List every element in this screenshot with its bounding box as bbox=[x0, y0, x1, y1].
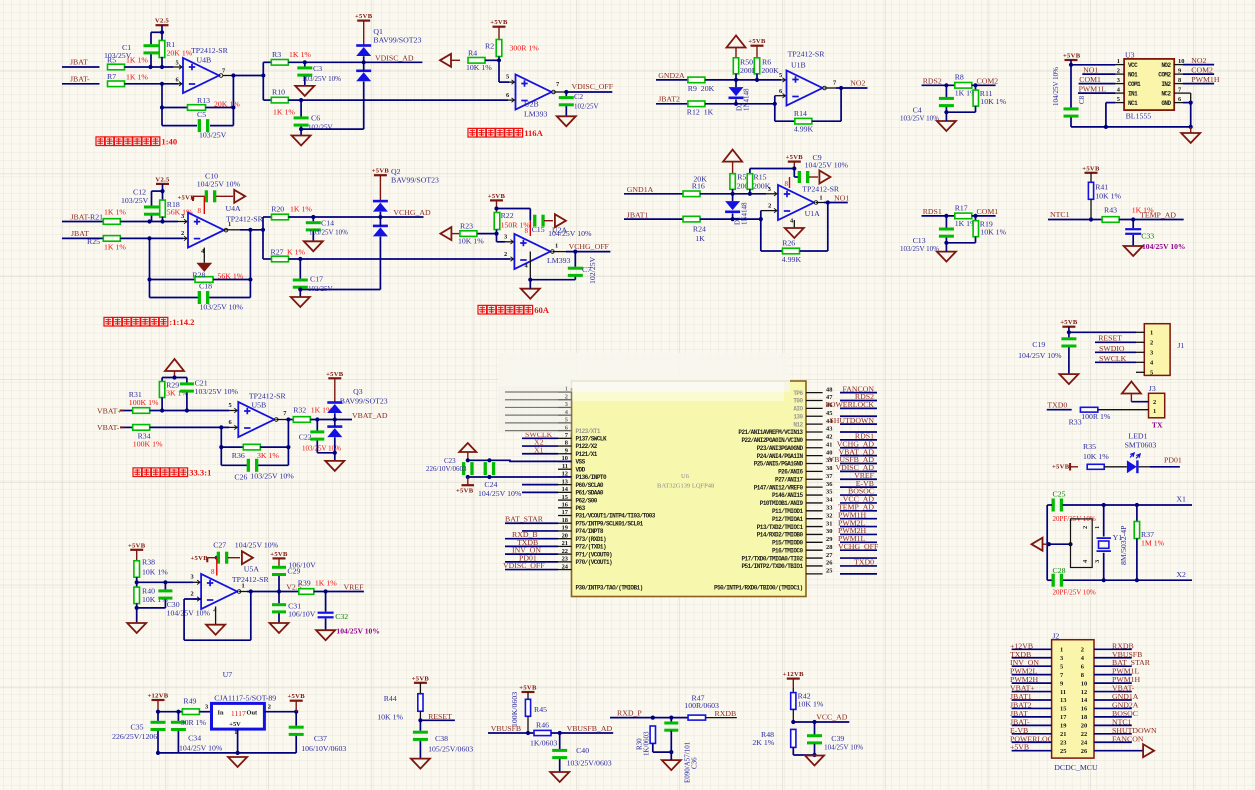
svg-text:12: 12 bbox=[1081, 689, 1087, 696]
resistor R16 bbox=[683, 191, 700, 197]
svg-text:1: 1 bbox=[1150, 330, 1153, 337]
resistor R31 bbox=[133, 408, 150, 414]
svg-text:P13/TXD2/TMIOC1: P13/TXD2/TMIOC1 bbox=[757, 524, 804, 531]
capacitor C19 bbox=[1068, 332, 1070, 337]
svg-text:T00: T00 bbox=[793, 398, 803, 405]
svg-text:R26: R26 bbox=[782, 239, 795, 248]
svg-text:TEMP_AD: TEMP_AD bbox=[1140, 211, 1176, 220]
svg-text:JBAT-: JBAT- bbox=[70, 75, 90, 84]
wire bottom node bbox=[946, 242, 975, 244]
svg-text:104/25V 10%: 104/25V 10% bbox=[824, 744, 863, 752]
ground RXD block bbox=[662, 760, 681, 770]
svg-text:COM1: COM1 bbox=[977, 207, 999, 216]
capacitor C15 bbox=[533, 215, 536, 227]
svg-text:JBAT2: JBAT2 bbox=[658, 95, 680, 104]
wire pin2 U2A from R27 net bbox=[510, 258, 514, 260]
svg-text:Q3: Q3 bbox=[353, 387, 363, 396]
wire to pin5 U2B bbox=[499, 81, 509, 83]
svg-text:+5VB: +5VB bbox=[128, 542, 146, 549]
svg-text:8: 8 bbox=[565, 440, 568, 447]
svg-text:P23/ANI3PGA0GND: P23/ANI3PGA0GND bbox=[757, 445, 804, 452]
svg-text:P31/VCOUT1/INTP4/TI03/TO03: P31/VCOUT1/INTP4/TI03/TO03 bbox=[576, 513, 656, 520]
svg-text:106/10V: 106/10V bbox=[288, 610, 316, 619]
svg-text:R39: R39 bbox=[298, 579, 311, 588]
wire net pin 36 right bbox=[840, 486, 877, 488]
svg-text:33: 33 bbox=[826, 505, 832, 512]
capacitor C1 bbox=[150, 32, 152, 44]
svg-text:15: 15 bbox=[562, 494, 568, 501]
capacitor C14 bbox=[312, 217, 314, 221]
svg-text:R49: R49 bbox=[183, 697, 196, 706]
capacitor C17 bbox=[299, 259, 301, 279]
svg-text:25: 25 bbox=[826, 568, 832, 575]
svg-text:104/25V 10%: 104/25V 10% bbox=[805, 161, 849, 170]
svg-text:LM393: LM393 bbox=[524, 110, 547, 119]
svg-text:19: 19 bbox=[562, 525, 568, 532]
wire net pin 28 right bbox=[840, 549, 877, 551]
pin 1 output U5A bbox=[239, 591, 247, 593]
svg-text:15: 15 bbox=[1060, 706, 1066, 713]
power +5VB (U7 out) bbox=[290, 700, 303, 702]
svg-text:C39: C39 bbox=[831, 734, 844, 743]
svg-text:11: 11 bbox=[1060, 689, 1066, 696]
svg-text:2: 2 bbox=[768, 203, 771, 210]
capacitor C22 bbox=[316, 420, 318, 431]
svg-text:P24/ANI4/PGA1IN: P24/ANI4/PGA1IN bbox=[757, 453, 804, 460]
svg-text:104/25V 10%: 104/25V 10% bbox=[167, 609, 211, 618]
svg-text:VDISC_AD: VDISC_AD bbox=[375, 54, 414, 63]
svg-text:226/25V/1206: 226/25V/1206 bbox=[112, 732, 157, 741]
resistor R18 bbox=[162, 191, 164, 201]
svg-text:COM1: COM1 bbox=[1079, 75, 1101, 84]
resistor R40 bbox=[134, 587, 140, 603]
svg-text:8: 8 bbox=[785, 180, 789, 188]
svg-text:LED1: LED1 bbox=[1128, 432, 1147, 441]
svg-text:VBUSFB: VBUSFB bbox=[491, 724, 521, 733]
J2 row 11/12 bbox=[1012, 691, 1052, 693]
resistor R6 bbox=[754, 58, 759, 74]
svg-text:1K 1%: 1K 1% bbox=[126, 73, 148, 82]
svg-text:P147/ANI12/VREF0: P147/ANI12/VREF0 bbox=[754, 484, 804, 491]
wire net pin 43 right bbox=[840, 431, 877, 433]
wire net pin 33 right bbox=[840, 510, 877, 512]
svg-text:JBAT: JBAT bbox=[70, 58, 88, 67]
svg-text:P75/INTP9/SCLK01/SCL01: P75/INTP9/SCLK01/SCL01 bbox=[576, 520, 644, 527]
svg-text:BAV99/SOT23: BAV99/SOT23 bbox=[391, 176, 439, 185]
power +5VB (R22) bbox=[490, 199, 503, 201]
svg-text:U5A: U5A bbox=[244, 565, 260, 574]
resistor R2 bbox=[496, 40, 502, 57]
svg-text:2: 2 bbox=[1153, 399, 1156, 406]
svg-text:1K 1%: 1K 1% bbox=[126, 56, 148, 65]
net X1 wire bbox=[1047, 504, 1052, 506]
svg-text:C28: C28 bbox=[1053, 566, 1066, 575]
svg-text:R44: R44 bbox=[384, 694, 397, 703]
svg-text:U6: U6 bbox=[681, 473, 690, 480]
svg-text:X1: X1 bbox=[534, 445, 544, 454]
net X2 (MCU pin8) bbox=[522, 445, 558, 447]
svg-text:P11/TMIOD1: P11/TMIOD1 bbox=[772, 508, 803, 515]
resistor R17 bbox=[955, 213, 972, 219]
ground under C3 bbox=[295, 86, 314, 96]
J2 row 25/26 bbox=[1012, 750, 1052, 752]
capacitor C35 bbox=[157, 712, 159, 721]
power +5VB (C23 rail) bbox=[462, 484, 475, 486]
power +5VB (J1) bbox=[1062, 326, 1075, 328]
vcc triangle (C23) bbox=[459, 443, 476, 452]
capacitor C13 bbox=[945, 216, 947, 228]
svg-text:C24: C24 bbox=[484, 480, 497, 489]
svg-text:C38: C38 bbox=[435, 734, 448, 743]
vertical output-feedback U5B bbox=[287, 420, 289, 466]
svg-text:1: 1 bbox=[819, 195, 822, 202]
svg-text:43: 43 bbox=[826, 426, 832, 433]
svg-text:5: 5 bbox=[176, 60, 179, 67]
svg-text:R35: R35 bbox=[1083, 442, 1096, 451]
svg-text:35: 35 bbox=[826, 489, 832, 496]
wire net pin 42 right bbox=[840, 439, 877, 441]
vcc triangle (J3) bbox=[1122, 382, 1141, 394]
svg-text:+5VB: +5VB bbox=[519, 685, 537, 692]
svg-text:100K 1%: 100K 1% bbox=[133, 440, 163, 449]
wire bottom node bbox=[946, 111, 975, 113]
svg-text:C8: C8 bbox=[1078, 95, 1086, 104]
svg-text:TX: TX bbox=[1152, 421, 1163, 430]
capacitor C7 bbox=[574, 252, 576, 267]
capacitor C12 bbox=[151, 191, 153, 206]
net arrow (R4 left) bbox=[440, 54, 451, 67]
J2 row 17/18 bbox=[1012, 716, 1052, 718]
svg-text:PD01: PD01 bbox=[1164, 456, 1182, 465]
svg-text:C19: C19 bbox=[1032, 340, 1045, 349]
svg-text:102/25V: 102/25V bbox=[588, 256, 597, 284]
resistor R36 bbox=[243, 444, 260, 450]
resistor R15 bbox=[747, 174, 752, 190]
ground under C4 bbox=[937, 121, 956, 131]
svg-text:20PF/25V 10%: 20PF/25V 10% bbox=[1053, 589, 1096, 597]
svg-text:1K/0603: 1K/0603 bbox=[530, 739, 557, 748]
wire net pin 40 right bbox=[840, 455, 877, 457]
svg-text:26: 26 bbox=[826, 560, 833, 567]
svg-text:VBUSFB_AD: VBUSFB_AD bbox=[567, 724, 613, 733]
svg-text:X2: X2 bbox=[1176, 570, 1186, 579]
wire pin14 stub net bbox=[522, 491, 558, 493]
svg-text:C33: C33 bbox=[1141, 232, 1154, 241]
svg-text:NO1: NO1 bbox=[834, 194, 849, 203]
svg-text:NO2: NO2 bbox=[1191, 56, 1206, 65]
caption discharge sense ratio bbox=[96, 137, 105, 146]
svg-text:R17: R17 bbox=[955, 203, 968, 212]
svg-text:1K: 1K bbox=[695, 234, 705, 243]
svg-text:R10: R10 bbox=[272, 87, 285, 96]
svg-text:5: 5 bbox=[1060, 663, 1063, 670]
svg-text:14: 14 bbox=[562, 486, 569, 493]
svg-text:U7: U7 bbox=[223, 670, 233, 679]
svg-text:104/25V 10%: 104/25V 10% bbox=[1018, 351, 1062, 360]
ground under C6 bbox=[292, 136, 311, 146]
svg-text:C3: C3 bbox=[313, 64, 322, 73]
wire net pin 41 right bbox=[840, 447, 877, 449]
ground under C19 bbox=[1059, 374, 1078, 384]
svg-text:NC2: NC2 bbox=[1161, 90, 1171, 97]
svg-text:24: 24 bbox=[562, 563, 569, 570]
resistor R4 bbox=[468, 58, 485, 64]
wire U3 pin1 VCC bbox=[1071, 64, 1115, 66]
svg-text:R13: R13 bbox=[197, 96, 210, 105]
svg-text:102/25V: 102/25V bbox=[574, 103, 599, 111]
J2 row 23/24 bbox=[1012, 741, 1052, 743]
svg-text:8: 8 bbox=[198, 207, 202, 215]
svg-text:P14/RXD2/TMIOB0: P14/RXD2/TMIOB0 bbox=[757, 532, 804, 539]
svg-text:23: 23 bbox=[562, 556, 568, 563]
svg-text:+5VB: +5VB bbox=[1063, 53, 1081, 60]
vcc triangle (R50) bbox=[727, 36, 746, 48]
svg-text:1K 1%: 1K 1% bbox=[104, 243, 126, 252]
capacitor C36 bbox=[670, 718, 672, 723]
feedback R36 U5B bbox=[220, 427, 222, 465]
svg-text:NO1: NO1 bbox=[1083, 65, 1098, 74]
svg-text:V2.5: V2.5 bbox=[155, 176, 170, 183]
svg-text:18: 18 bbox=[562, 517, 568, 524]
svg-text:103/25V: 103/25V bbox=[199, 131, 227, 140]
net TXDB (MCU pin21) bbox=[505, 545, 558, 547]
caption charge sense ratio bbox=[104, 317, 113, 326]
svg-text:104/25V 10%: 104/25V 10% bbox=[179, 744, 223, 753]
op-amp U4B bbox=[173, 66, 183, 68]
svg-text:106/10V: 106/10V bbox=[289, 561, 317, 570]
svg-text:104/25V 10%: 104/25V 10% bbox=[478, 489, 522, 498]
svg-text:+5VB: +5VB bbox=[326, 371, 344, 378]
svg-text:JBAT-: JBAT- bbox=[71, 212, 91, 221]
svg-text:104/25V 10%: 104/25V 10% bbox=[548, 229, 592, 238]
J2 row 21/22 bbox=[1012, 733, 1052, 735]
pin 1 output U2A bbox=[552, 251, 566, 253]
resistor R43 bbox=[1102, 217, 1119, 223]
svg-text:NO2: NO2 bbox=[850, 79, 865, 88]
J2 row 5/6 bbox=[1012, 665, 1052, 667]
svg-text:VCHG_AD: VCHG_AD bbox=[393, 208, 431, 217]
svg-text:P10TMIOB1/ANI9: P10TMIOB1/ANI9 bbox=[760, 500, 804, 507]
svg-text:U3: U3 bbox=[1125, 51, 1135, 60]
resistor R29 bbox=[159, 382, 164, 398]
svg-text:GND1A: GND1A bbox=[627, 185, 654, 194]
svg-text:10K 1%: 10K 1% bbox=[980, 228, 1006, 237]
svg-text:TP6: TP6 bbox=[793, 390, 803, 397]
svg-text:C18: C18 bbox=[199, 282, 212, 291]
resistor R11 bbox=[975, 85, 977, 90]
svg-text:103/25V/0603: 103/25V/0603 bbox=[567, 759, 612, 768]
resistor R27 bbox=[263, 258, 271, 260]
svg-text:104/25V 10%: 104/25V 10% bbox=[1052, 67, 1060, 106]
svg-text:+5VB: +5VB bbox=[1010, 743, 1029, 752]
resistor R33 bbox=[1080, 407, 1097, 412]
feedback R14 U1B bbox=[774, 104, 776, 121]
resistor R22 bbox=[494, 213, 500, 230]
J2 row 1/2 bbox=[1012, 648, 1052, 650]
ground U7 bbox=[228, 757, 247, 767]
svg-text:U1A: U1A bbox=[805, 209, 821, 218]
capacitor C21 bbox=[180, 382, 194, 385]
svg-text:U4B: U4B bbox=[197, 56, 212, 65]
svg-text:48: 48 bbox=[826, 386, 832, 393]
svg-text:2: 2 bbox=[1082, 526, 1089, 529]
svg-text:21: 21 bbox=[562, 540, 568, 547]
svg-text:P15/TMIOD0: P15/TMIOD0 bbox=[772, 540, 803, 547]
J2 row 9/10 bbox=[1012, 682, 1052, 684]
svg-text:1K 1%: 1K 1% bbox=[289, 50, 311, 59]
svg-text:VSS: VSS bbox=[576, 459, 586, 466]
svg-text::1:14.2: :1:14.2 bbox=[169, 317, 194, 327]
resistor R49 bbox=[178, 711, 182, 713]
svg-text:41: 41 bbox=[826, 441, 832, 448]
svg-text:C27: C27 bbox=[213, 541, 226, 550]
wire +5VB to C15 bbox=[497, 208, 531, 210]
svg-text:DCDC_MCU: DCDC_MCU bbox=[1054, 763, 1098, 772]
capacitor C6 bbox=[300, 100, 302, 116]
wire J1 pin1 +5VB bbox=[1069, 331, 1136, 333]
power +5VB (R45) bbox=[522, 691, 535, 693]
svg-text:1: 1 bbox=[1153, 408, 1156, 415]
capacitor C33 bbox=[1132, 220, 1134, 229]
svg-text:16: 16 bbox=[562, 502, 569, 509]
caption discharge protect 116A bbox=[468, 128, 477, 137]
svg-text:VBAT_AD: VBAT_AD bbox=[352, 411, 388, 420]
power +5VB (Q3) bbox=[328, 377, 341, 379]
svg-text:3: 3 bbox=[191, 574, 194, 581]
svg-text:+5VB: +5VB bbox=[1052, 464, 1070, 471]
svg-text:U4A: U4A bbox=[226, 204, 242, 213]
svg-text:1: 1 bbox=[555, 243, 558, 250]
capacitor C18 bbox=[198, 291, 201, 304]
svg-text:GND2A: GND2A bbox=[658, 71, 685, 80]
svg-text:38: 38 bbox=[826, 465, 832, 472]
svg-text:RDS2: RDS2 bbox=[923, 76, 942, 85]
resistor R45 bbox=[525, 699, 530, 716]
svg-text:103/25V 10%: 103/25V 10% bbox=[900, 114, 939, 122]
resistor R1 bbox=[161, 32, 163, 41]
wire J3 pin2 bbox=[1131, 401, 1148, 403]
svg-text:COM2: COM2 bbox=[1191, 66, 1213, 75]
ground under Q3 bbox=[325, 461, 344, 471]
wire to R20/R27 bbox=[262, 217, 264, 259]
feedback U5A bbox=[184, 598, 201, 600]
wire net pin 37 right bbox=[840, 478, 877, 480]
svg-text:K 1%: K 1% bbox=[287, 248, 305, 257]
svg-text:P71/(VCOUT0): P71/(VCOUT0) bbox=[576, 551, 613, 558]
svg-text:10K 1%: 10K 1% bbox=[377, 713, 403, 722]
svg-text:U2B: U2B bbox=[524, 100, 539, 109]
svg-text:IN2: IN2 bbox=[1161, 81, 1171, 88]
resistor R5 bbox=[108, 64, 125, 70]
svg-text:2: 2 bbox=[181, 230, 184, 237]
op-amp U2B LM393 bbox=[516, 75, 552, 110]
svg-text:X1: X1 bbox=[1176, 495, 1186, 504]
J2 row 15/16 bbox=[1012, 707, 1052, 709]
svg-text:U5B: U5B bbox=[252, 401, 267, 410]
svg-text:3: 3 bbox=[1060, 655, 1063, 662]
resistor R28 bbox=[195, 277, 213, 283]
svg-text:60A: 60A bbox=[534, 305, 550, 315]
power V2.5 (row1) bbox=[156, 24, 169, 26]
power +5VB (Q1) bbox=[357, 20, 370, 22]
op-amp U2A LM393 bbox=[514, 234, 550, 269]
ground pin4 U1A bbox=[793, 220, 795, 228]
op-amp U5B bbox=[229, 410, 238, 412]
svg-text:4.99K: 4.99K bbox=[794, 125, 814, 134]
svg-text:8: 8 bbox=[211, 568, 215, 576]
svg-text:C14: C14 bbox=[321, 219, 334, 228]
capacitor C23 bbox=[462, 462, 465, 475]
svg-text:R3: R3 bbox=[272, 50, 281, 59]
wire net pin 48 right bbox=[840, 392, 877, 394]
wire Q1 bottom to C6 node bbox=[301, 128, 364, 130]
ground pin4 U2A bbox=[529, 252, 531, 280]
svg-text:16: 16 bbox=[1081, 706, 1088, 713]
svg-text:10K 1%: 10K 1% bbox=[466, 63, 492, 72]
wire pin5 U1B bbox=[781, 79, 787, 81]
svg-text:R27: R27 bbox=[271, 248, 284, 257]
svg-text:103/25V 10%: 103/25V 10% bbox=[200, 303, 244, 312]
feedback R26 U1A bbox=[760, 219, 762, 251]
net RXD_B (MCU pin20) bbox=[505, 538, 558, 540]
wire pin19 bbox=[522, 530, 558, 532]
svg-text:2: 2 bbox=[504, 251, 507, 258]
svg-text:+5VB: +5VB bbox=[270, 551, 288, 558]
svg-text:31: 31 bbox=[826, 520, 832, 527]
svg-text:VCC_AD: VCC_AD bbox=[816, 713, 848, 722]
svg-text:C2: C2 bbox=[574, 92, 583, 101]
svg-text:5: 5 bbox=[779, 72, 782, 79]
svg-text:C5: C5 bbox=[197, 110, 206, 119]
capacitor C34 bbox=[177, 712, 179, 721]
svg-text:P12/TMIOA1: P12/TMIOA1 bbox=[772, 516, 803, 523]
svg-text:AIO: AIO bbox=[793, 406, 803, 413]
svg-text:116A: 116A bbox=[524, 128, 543, 138]
svg-text:R23: R23 bbox=[460, 222, 473, 231]
resistor R37 bbox=[1136, 505, 1138, 521]
resistor R30 bbox=[650, 726, 655, 743]
J2 row 13/14 bbox=[1012, 699, 1052, 701]
svg-text:NO1: NO1 bbox=[1128, 71, 1138, 78]
svg-text:3: 3 bbox=[1150, 350, 1153, 357]
wire divider to pin3 bbox=[137, 581, 193, 583]
svg-text:20: 20 bbox=[562, 532, 568, 539]
ground under C33 bbox=[1124, 246, 1143, 256]
ground under C38 bbox=[411, 759, 430, 769]
svg-text:100R 1%: 100R 1% bbox=[1081, 412, 1111, 421]
svg-text:5: 5 bbox=[1150, 370, 1153, 377]
net arrow (R23 left) bbox=[440, 227, 451, 240]
svg-text:22: 22 bbox=[562, 548, 568, 555]
svg-text:P27/ANI17: P27/ANI17 bbox=[775, 476, 803, 483]
op-amp U1A bbox=[778, 185, 814, 220]
svg-text:3: 3 bbox=[1117, 77, 1120, 84]
svg-text:R20: R20 bbox=[271, 205, 284, 214]
capacitor C38 bbox=[419, 720, 421, 731]
svg-text:3: 3 bbox=[565, 401, 568, 408]
capacitor C39 bbox=[814, 722, 816, 735]
svg-text:P123/XT1: P123/XT1 bbox=[576, 428, 601, 435]
svg-text:CJA1117-5/SOT-89: CJA1117-5/SOT-89 bbox=[214, 694, 276, 703]
resistor R8 bbox=[955, 83, 972, 89]
svg-text:TP2412-SR: TP2412-SR bbox=[232, 575, 270, 584]
svg-text:10K 1%: 10K 1% bbox=[1095, 192, 1121, 201]
svg-text:103/25V 10%: 103/25V 10% bbox=[302, 75, 341, 83]
svg-text:P74/INPT8: P74/INPT8 bbox=[576, 528, 604, 535]
svg-text:130: 130 bbox=[793, 413, 803, 420]
resistor R38 bbox=[134, 561, 140, 577]
svg-text:2: 2 bbox=[191, 591, 194, 598]
